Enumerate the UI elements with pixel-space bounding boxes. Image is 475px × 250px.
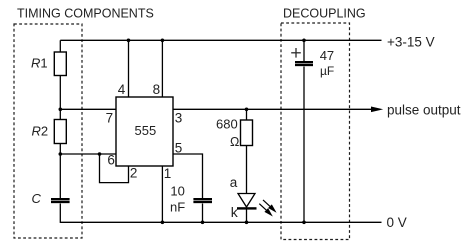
wire: +V rail down to 47uF: [303, 40, 305, 61]
node: junction pin1 / 0V rail: [161, 221, 165, 225]
svg-text:C: C: [32, 191, 42, 206]
node: junction pin6 wire / pin2 loop: [98, 152, 102, 156]
wire: 47uF bottom to 0V rail: [303, 67, 305, 223]
svg-text:R1: R1: [31, 56, 48, 71]
svg-text:+3-15 V: +3-15 V: [387, 35, 435, 50]
wire: pin 5 over and down to 10nF: [173, 154, 203, 198]
svg-text:1: 1: [164, 166, 172, 181]
svg-text:3: 3: [175, 111, 183, 126]
svg-text:a: a: [230, 175, 238, 190]
wire: pin 1 down to 0V rail: [161, 166, 163, 222]
LED light arrow 1: [263, 200, 275, 211]
wire: R2 bottom to capacitor C: [59, 144, 61, 199]
LED D1: cathode bar: [237, 207, 257, 209]
svg-text:pulse output: pulse output: [387, 103, 461, 118]
svg-text:555: 555: [135, 123, 157, 138]
svg-text:5: 5: [175, 140, 183, 155]
svg-text:2: 2: [130, 165, 138, 180]
wire: +3-15 V supply rail (top): [60, 39, 381, 41]
node: junction pin4 / rail: [127, 39, 131, 43]
wire: junction to pin 6: [60, 153, 116, 155]
node: junction R2/C/pin6: [59, 152, 63, 156]
LED light arrow 2: [259, 204, 271, 215]
node: junction LED / 0V rail: [245, 221, 249, 225]
svg-text:0 V: 0 V: [387, 215, 407, 230]
svg-text:Ω: Ω: [230, 135, 239, 149]
node: junction 47uF / 0V rail: [302, 221, 306, 225]
resistor R1: [54, 52, 66, 76]
node: junction pin8 / rail: [161, 39, 165, 43]
resistor 680 ohm: [241, 120, 253, 146]
wire: pin 8 to +V rail: [161, 40, 163, 97]
svg-text:47: 47: [320, 48, 334, 63]
svg-text:k: k: [231, 204, 239, 220]
node: junction 10nF / 0V rail: [201, 221, 205, 225]
wire: pin 3 pulse output line: [173, 108, 372, 110]
svg-text:680: 680: [216, 117, 238, 132]
wire: LED cathode to 0V rail: [246, 210, 248, 223]
node: junction R1/R2/pin7: [59, 108, 63, 112]
dashed enclosure: TIMING COMPONENTS box: [14, 24, 82, 238]
svg-text:TIMING COMPONENTS: TIMING COMPONENTS: [17, 7, 154, 21]
wire: junction down to 680 ohm resistor: [246, 109, 248, 120]
IC U1: 555 timer body: [116, 97, 173, 166]
capacitor C (plates): [51, 198, 70, 200]
capacitor 10nF (plates): [193, 198, 212, 200]
node: junction 47uF / +V rail: [302, 39, 306, 43]
wire: 10nF bottom to 0V rail: [202, 204, 204, 223]
LED D1: triangle (anode): [238, 194, 255, 208]
wire: junction to pin 7: [60, 108, 116, 110]
wire: R1 bottom to R2 top: [59, 76, 61, 120]
arrowhead: pulse output: [371, 107, 383, 113]
svg-text:nF: nF: [170, 200, 185, 215]
svg-text:10: 10: [170, 183, 184, 198]
svg-text:µF: µF: [320, 64, 334, 78]
svg-text:6: 6: [107, 153, 115, 168]
wire: C bottom to 0V rail: [59, 204, 61, 223]
svg-text:DECOUPLING: DECOUPLING: [283, 7, 366, 21]
svg-text:7: 7: [106, 111, 114, 126]
dashed enclosure: DECOUPLING box: [281, 23, 350, 240]
svg-text:4: 4: [118, 82, 126, 97]
wire: 0 V rail (bottom): [60, 221, 381, 223]
polarity mark: +: [291, 48, 301, 58]
resistor R2: [54, 120, 66, 144]
capacitor 47uF (plates): [295, 61, 313, 63]
wire: loop from pin6 wire down and around to pin 2: [100, 154, 129, 183]
wire: rail down to R1 top: [59, 40, 61, 52]
wire: pin 4 to +V rail: [128, 40, 130, 97]
node: junction pulse line / 680 ohm: [245, 108, 249, 112]
svg-text:8: 8: [153, 82, 161, 97]
svg-text:R2: R2: [32, 124, 49, 139]
wire: 680 ohm down to LED anode: [246, 146, 248, 195]
